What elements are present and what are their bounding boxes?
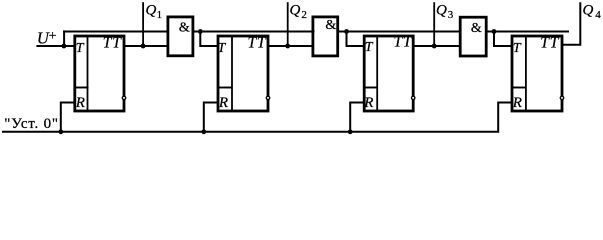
- flip-flop DD1 (TT): [74, 34, 124, 111]
- label U+ input: [37, 29, 57, 48]
- svg-text:Q: Q: [436, 3, 447, 19]
- wire AND1 output carry to AND2 input 1: [193, 31, 315, 33]
- wire AND3 output carry stub: [486, 31, 569, 33]
- svg-text:T: T: [365, 40, 374, 55]
- svg-text:Q: Q: [290, 3, 301, 19]
- wire R2 branch: [204, 103, 219, 132]
- wire drop AND3 output to T4: [494, 32, 513, 47]
- svg-text:"Уст. 0": "Уст. 0": [4, 116, 59, 132]
- wire drop AND2 output to T3: [347, 32, 366, 47]
- node R2 junction: [201, 129, 206, 134]
- node R3 junction: [348, 129, 353, 134]
- wire Q1 riser: [142, 2, 144, 46]
- node R1 junction: [58, 129, 63, 134]
- flip-flop DD4 (TT): [511, 34, 562, 111]
- svg-text:R: R: [75, 95, 85, 111]
- AND gate D3: [460, 17, 486, 56]
- body DD1: [75, 36, 124, 111]
- svg-text:4: 4: [595, 9, 601, 21]
- pin inverse output circle DD4: [560, 96, 563, 99]
- svg-text:Q: Q: [583, 3, 594, 19]
- wire drop AND1 output to T2: [200, 32, 219, 47]
- svg-text:1: 1: [157, 9, 163, 21]
- control field separator DD3: [376, 36, 378, 111]
- R section divider DD1: [74, 87, 89, 89]
- body D1: [168, 17, 193, 56]
- svg-text:&: &: [471, 21, 482, 36]
- body DD4: [512, 36, 562, 111]
- body DD2: [218, 36, 268, 111]
- R section divider DD4: [511, 87, 526, 89]
- label Q1: [146, 3, 163, 21]
- R section divider DD3: [363, 87, 377, 89]
- node Q1 junction: [141, 44, 146, 49]
- node U+ junction: [62, 44, 67, 49]
- wire Q3 output to AND3 input 2: [413, 45, 460, 47]
- label Q2: [290, 3, 307, 21]
- pin inverse output circle DD3: [412, 96, 415, 99]
- svg-text:TT: TT: [394, 33, 413, 50]
- svg-text:R: R: [218, 95, 228, 111]
- svg-text:TT: TT: [248, 34, 267, 51]
- svg-text:2: 2: [301, 9, 307, 21]
- wire Q1 output to AND1 input 2: [124, 45, 169, 47]
- svg-text:TT: TT: [103, 34, 122, 51]
- svg-text:R: R: [512, 95, 522, 111]
- R section divider DD2: [217, 87, 232, 89]
- pin inverse output circle DD2: [266, 96, 269, 99]
- svg-text:Q: Q: [146, 3, 157, 19]
- svg-text:T: T: [513, 41, 522, 56]
- node Q3 junction: [432, 44, 437, 49]
- node AND3 output junction: [492, 29, 497, 34]
- pin inverse output circle DD1: [122, 96, 125, 99]
- wire U+ input to T1: [36, 45, 76, 47]
- svg-text:T: T: [76, 41, 85, 56]
- wire Q2 output to AND2 input 2: [268, 45, 314, 47]
- control field separator DD1: [87, 36, 89, 111]
- node AND1 output junction: [198, 29, 203, 34]
- wire AND2 output carry to AND3 input 1: [338, 31, 462, 33]
- flip-flop DD2 (TT): [217, 34, 268, 111]
- flip-flop DD3 (TT): [363, 33, 413, 111]
- svg-text:TT: TT: [540, 34, 559, 51]
- control field separator DD4: [525, 36, 527, 111]
- label Q4: [583, 3, 602, 21]
- wire Q3 riser: [433, 2, 435, 46]
- svg-text:+: +: [49, 29, 57, 44]
- wire carry line to AND1 input 1: [63, 31, 168, 33]
- AND gate D1: [168, 17, 193, 56]
- svg-text:T: T: [218, 41, 227, 56]
- svg-text:&: &: [179, 20, 190, 35]
- wire reset bus: [2, 103, 513, 132]
- wire Q4 output to riser: [562, 2, 580, 45]
- body DD3: [364, 36, 413, 111]
- svg-text:&: &: [325, 18, 336, 33]
- control field separator DD2: [231, 36, 233, 111]
- wire R3 branch: [350, 103, 365, 132]
- label Q3: [436, 3, 454, 21]
- wire riser U+ to carry line: [63, 30, 65, 46]
- AND gate D2: [313, 17, 338, 56]
- node AND2 output junction: [344, 29, 349, 34]
- wire R1 branch: [61, 103, 76, 132]
- svg-text:3: 3: [448, 9, 454, 21]
- body D3: [460, 17, 486, 56]
- node Q2 junction: [285, 44, 290, 49]
- body D2: [313, 17, 338, 56]
- wire Q2 riser: [287, 2, 289, 46]
